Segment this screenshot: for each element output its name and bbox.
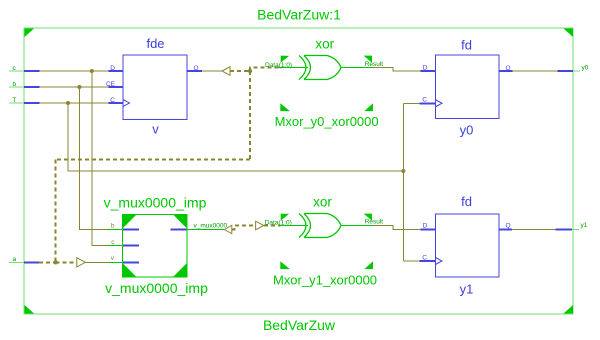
net a : dashed to junction — [39, 261, 56, 263]
xor y0 output olive to fd D — [373, 68, 421, 71]
net c : vertical drop to mux pin c — [92, 71, 108, 246]
svg-text:fd: fd — [461, 38, 472, 53]
fde Q wire to collapse marker — [202, 70, 222, 72]
xor y1 flag top-left — [281, 214, 289, 221]
fde clock wedge — [123, 100, 130, 107]
mux pin stub c inside — [123, 245, 139, 247]
collapse marker after fde Q (open triangle left) — [222, 67, 230, 76]
mux corner triangle bottom-right — [173, 263, 187, 277]
svg-text:Result: Result — [365, 61, 384, 68]
svg-text:xor: xor — [315, 37, 334, 52]
net T : port stub — [9, 102, 24, 104]
buffer marker to mux v (open triangle right) — [77, 258, 86, 267]
xor y1 output olive to fd D — [373, 226, 421, 230]
net b : wire to fde CE — [40, 86, 109, 88]
mux output stub inside — [171, 229, 187, 231]
bus dashed : junction step up to xor input — [250, 68, 279, 71]
fde D pin stub — [109, 70, 124, 72]
xor y0 flag bottom-right — [364, 103, 373, 111]
bus dashed : across to left — [56, 159, 250, 161]
xor y0 output green lead — [341, 67, 373, 69]
bus dashed : marker to junction — [230, 70, 250, 72]
fd y1 C pin stub — [420, 260, 436, 262]
buffer marker before xor y1 input (open triangle right) — [256, 221, 264, 230]
net b : vertical drop to mux pin b — [79, 87, 107, 230]
net y0 olive — [513, 70, 558, 72]
xor y1 flag bottom-left — [280, 261, 290, 269]
svg-text:a: a — [13, 256, 17, 263]
fd y1 clock wedge — [436, 258, 443, 265]
svg-text:BedVarZuw:1: BedVarZuw:1 — [257, 7, 341, 23]
net T : into fd y0 C — [403, 102, 419, 104]
xor y0 flag top-left — [281, 56, 289, 63]
net y0 outside stub — [573, 70, 580, 72]
svg-text:Mxor_y1_xor0000: Mxor_y1_xor0000 — [273, 273, 377, 288]
svg-text:C: C — [422, 255, 427, 262]
xor y1 output green lead — [341, 225, 373, 227]
xor gate Mxor_y0 : shape — [299, 56, 341, 80]
fde Q pin stub — [187, 70, 202, 72]
svg-text:D: D — [423, 223, 428, 230]
svg-text:xor: xor — [313, 195, 332, 210]
junction dot net c — [90, 69, 94, 73]
svg-text:T: T — [13, 97, 17, 104]
border corner marker bottom-right — [564, 305, 574, 314]
svg-text:Q: Q — [506, 65, 511, 72]
bus dashed : junction down — [249, 71, 251, 160]
dashed from buffer to xor y1 input — [264, 225, 281, 227]
svg-text:fde: fde — [146, 36, 164, 51]
svg-text:Data(1:0): Data(1:0) — [265, 62, 292, 69]
net c : port stub — [9, 70, 24, 72]
mux output dashed step — [232, 226, 256, 230]
svg-text:b: b — [111, 223, 115, 230]
junction dot net b — [77, 85, 81, 89]
flip-flop fde v : body — [123, 55, 187, 120]
net a : port blue segment — [24, 261, 39, 263]
mux corner triangle bottom-left — [123, 263, 137, 277]
net y1 port blue segment — [556, 228, 572, 230]
svg-text:v_mux0000_imp: v_mux0000_imp — [105, 280, 208, 296]
buffer to mux v olive — [85, 261, 107, 263]
svg-text:D: D — [110, 65, 115, 72]
border corner marker bottom-left — [25, 305, 35, 314]
net y0 port blue segment — [558, 70, 573, 72]
sheet border BedVarZuw — [24, 28, 573, 314]
net y1 olive — [512, 228, 556, 230]
svg-text:BedVarZuw: BedVarZuw — [263, 317, 336, 333]
net c : green pin lead into mux — [108, 245, 123, 247]
xor gate Mxor_y1 : shape — [299, 214, 341, 238]
mux pin stub b inside — [123, 229, 139, 231]
fd y1 D pin stub — [421, 228, 436, 230]
xor y1 flag bottom-right — [364, 261, 373, 269]
xor y1 flag top-right — [364, 214, 373, 221]
svg-text:Mxor_y0_xor0000: Mxor_y0_xor0000 — [275, 114, 379, 129]
svg-text:y0: y0 — [582, 65, 589, 72]
border corner marker top-left — [25, 29, 35, 38]
mux v green pin lead — [108, 261, 123, 263]
mux output green lead — [187, 229, 224, 231]
fd y0 clock wedge — [436, 100, 443, 107]
net a : dashed junction to buffer — [56, 261, 77, 263]
mux v_mux0000_imp : body — [123, 215, 188, 278]
fd y0 C pin stub — [420, 102, 436, 104]
junction dot bus at xor y0 — [248, 69, 252, 73]
net b : green pin lead into mux — [108, 229, 123, 231]
svg-text:v: v — [152, 122, 159, 137]
xor y0 input green lead — [279, 67, 308, 69]
svg-text:D: D — [423, 65, 428, 72]
svg-text:C: C — [110, 97, 115, 104]
net T : long branch to both fd clocks — [68, 103, 403, 171]
net b : port stub — [9, 86, 24, 88]
svg-text:v_mux0000: v_mux0000 — [194, 223, 228, 230]
fde C pin stub — [109, 102, 124, 104]
fd y0 Q pin stub — [499, 70, 513, 72]
net c : port blue segment — [24, 70, 40, 72]
net c : wire to fde D — [40, 70, 109, 72]
svg-text:v_mux0000_imp: v_mux0000_imp — [104, 195, 207, 211]
svg-text:Q: Q — [194, 65, 199, 72]
mux corner triangle top-right — [173, 215, 187, 229]
svg-text:fd: fd — [461, 194, 472, 209]
collapse marker after mux output (open triangle left) — [224, 225, 231, 233]
svg-text:Result: Result — [365, 219, 384, 226]
net b : port blue segment — [24, 86, 40, 88]
svg-text:y0: y0 — [460, 123, 474, 138]
fde CE pin stub — [109, 86, 124, 88]
svg-text:Data(1:0): Data(1:0) — [265, 220, 292, 227]
flip-flop fd y0 : body — [436, 55, 500, 119]
xor y1 input green lead — [281, 225, 309, 227]
svg-text:Q: Q — [506, 223, 511, 230]
svg-text:y1: y1 — [460, 282, 474, 297]
fd y1 Q pin stub — [499, 228, 512, 230]
border corner marker top-right — [564, 29, 574, 38]
junction dot bus at port a — [54, 260, 58, 264]
net T : into fd y1 C — [403, 260, 419, 262]
net T : port blue segment — [24, 102, 40, 104]
junction dot net T left — [66, 101, 70, 105]
net T : vertical trunk x=403 — [402, 103, 404, 261]
net a : port stub — [9, 261, 24, 263]
mux pin stub v inside — [123, 261, 139, 263]
xor y0 flag bottom-left — [280, 103, 290, 111]
svg-text:CE: CE — [106, 81, 116, 88]
bus dashed : down left side — [55, 160, 57, 263]
xor y0 flag top-right — [364, 56, 373, 63]
junction dot net T right — [401, 169, 405, 173]
svg-text:y1: y1 — [581, 222, 588, 229]
net y1 outside stub — [572, 228, 579, 230]
flip-flop fd y1 : body — [436, 214, 500, 277]
net T : wire to fde C — [40, 102, 109, 104]
fd y0 D pin stub — [421, 70, 436, 72]
svg-text:C: C — [422, 97, 427, 104]
svg-text:b: b — [13, 81, 17, 88]
mux corner triangle top-left — [123, 215, 137, 229]
